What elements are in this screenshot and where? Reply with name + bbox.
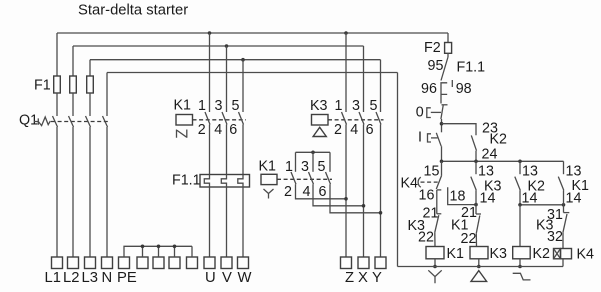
- node row junction col3: [518, 160, 522, 164]
- svg-text:24: 24: [482, 147, 498, 163]
- contactor K3 delta symbol: [313, 127, 326, 136]
- node L2-K1 tap: [225, 44, 229, 48]
- PE bus terminal 2: [153, 257, 164, 269]
- node PE bus 2: [157, 245, 161, 249]
- svg-text:Star-delta starter: Star-delta starter: [78, 2, 188, 18]
- star contactor K1 link dashed: [277, 178, 332, 180]
- wire PE bus drop 3: [174, 246, 176, 257]
- wire bridge to star pole3: [329, 152, 331, 172]
- svg-text:I: I: [418, 130, 422, 146]
- overload relay F1.1 heater element 3: [238, 175, 243, 188]
- contactor K3 link dashed: [328, 119, 384, 121]
- node branch K2 hold tap: [440, 122, 444, 126]
- node star-X junction: [362, 204, 366, 208]
- node coil K3 bus: [477, 265, 481, 269]
- wire star pole2 to X line: [313, 184, 364, 206]
- timer contact K4 common wire: [441, 161, 443, 176]
- contactor K1 link dashed: [193, 119, 247, 121]
- contactor K1 mains zigzag symbol: [177, 130, 187, 138]
- switch Q1 blade pole2: [69, 116, 74, 127]
- svg-text:K1: K1: [447, 246, 465, 262]
- wire L3 tap to K1 pole3: [242, 60, 244, 112]
- svg-text:F1.1: F1.1: [457, 60, 486, 76]
- wire Q1 pole1 to terminal L1: [56, 127, 58, 257]
- stop button 0 blade: [441, 105, 443, 119]
- svg-text:3: 3: [301, 159, 309, 175]
- fuse F1 pole 2: [70, 76, 77, 93]
- contact K1 13-14 blade: [558, 177, 564, 191]
- wire L1 tap to K1 pole1: [209, 33, 211, 112]
- contact K1 21-22 blade: [476, 216, 480, 234]
- mains zigzag below K2 coil: [513, 273, 531, 280]
- svg-text:K3: K3: [310, 98, 328, 114]
- contact K2 13-14 blade: [515, 177, 521, 191]
- wire L1 drop to F1: [56, 33, 58, 76]
- start button I rod: [431, 137, 438, 139]
- contactor K1 coil-box symbol: [176, 115, 193, 126]
- svg-text:14: 14: [566, 191, 582, 207]
- wire control feed from L1: [447, 33, 449, 43]
- overload trip 96 seat bracket: [441, 83, 447, 104]
- wire L3 end to K3 pole3: [380, 60, 382, 112]
- svg-text:K2: K2: [533, 246, 551, 262]
- overload relay F1.1 heater element 1: [204, 175, 209, 188]
- svg-text:0: 0: [416, 105, 424, 121]
- svg-text:F2: F2: [424, 40, 441, 56]
- fuse F1 pole 3: [87, 76, 94, 93]
- wire Q1 pole2 to terminal L2: [72, 127, 74, 257]
- svg-text:W: W: [238, 270, 252, 286]
- star symbol below K1 coil: [428, 270, 441, 283]
- svg-text:Z: Z: [345, 270, 354, 286]
- svg-text:U: U: [205, 270, 216, 286]
- svg-text:13: 13: [478, 164, 494, 180]
- svg-text:K3: K3: [490, 246, 508, 262]
- svg-text:4: 4: [214, 122, 222, 138]
- overload trip contact F1.1 blade: [441, 57, 448, 81]
- wire K3 pole1 to terminal Z: [345, 125, 347, 258]
- wire 16 to contact K3 21: [436, 190, 438, 214]
- wire K1 pole2 to F1.1: [226, 125, 228, 175]
- star contactor K1 blade pole1: [291, 172, 296, 184]
- svg-text:3: 3: [352, 98, 360, 114]
- node PE bus 1: [141, 245, 145, 249]
- wire coil K4 to bottom bus: [562, 259, 564, 267]
- svg-text:4: 4: [350, 122, 358, 138]
- overload trip 98 stub: [451, 80, 453, 87]
- node PE bus 3: [173, 245, 177, 249]
- wire 32 to coil K4: [562, 232, 564, 248]
- timer contact K4 16 seat: [437, 189, 442, 191]
- start button I blade: [436, 133, 441, 146]
- svg-text:N: N: [102, 270, 113, 286]
- switch Q1 blade pole3: [86, 116, 91, 127]
- wire K3 pole2 to terminal X: [363, 125, 365, 258]
- coil K3: [470, 247, 488, 259]
- switch Q1 blade pole4: [103, 116, 108, 127]
- PE bus terminal 1: [137, 257, 148, 269]
- svg-text:22: 22: [461, 231, 477, 247]
- svg-text:Q1: Q1: [19, 113, 38, 129]
- wire L1 tap to K3 pole1: [345, 33, 347, 112]
- wire Q1 pole4 to terminal N: [106, 127, 108, 257]
- coil K2: [513, 247, 531, 259]
- start button I cap: [428, 134, 432, 142]
- fuse F1 pole 1: [54, 76, 61, 93]
- wire L2 tap to K1 pole2: [226, 46, 228, 112]
- PE bus terminal 4: [187, 257, 198, 269]
- node coil K1 bus: [433, 265, 437, 269]
- svg-text:6: 6: [319, 184, 327, 200]
- wire K1 pole3 to F1.1: [242, 125, 244, 175]
- svg-text:5: 5: [318, 159, 326, 175]
- wire L2 bus: [73, 45, 364, 47]
- contact K3 31-32 blade: [563, 214, 567, 232]
- svg-text:98: 98: [456, 81, 472, 97]
- timer contact K4 18 branch: [448, 187, 476, 204]
- wire K1-14 down: [563, 190, 565, 204]
- terminal N: [102, 257, 113, 269]
- contact K1 21-22 seat: [476, 213, 481, 215]
- node K3-14 and 18 junction: [474, 203, 478, 207]
- node L3-K1 tap: [241, 58, 245, 62]
- timer contact K4 blade: [436, 176, 441, 189]
- wire N drop to Q1 pole4: [106, 73, 108, 117]
- wire K1 pole1 to F1.1: [209, 125, 211, 175]
- svg-text:K4: K4: [401, 176, 419, 192]
- contactor K1 blade pole3: [239, 112, 244, 125]
- wire PE bus drop 2: [158, 246, 160, 257]
- star contactor K1 coil-box symbol: [261, 174, 277, 184]
- svg-text:Y: Y: [372, 270, 382, 286]
- contactor K3 blade pole2: [359, 112, 364, 125]
- wire L1 bus: [57, 32, 448, 34]
- node row junction col2: [474, 160, 478, 164]
- wire star pole3 to Y line: [330, 184, 381, 213]
- contact K2 13-14 wire from node row: [519, 161, 521, 174]
- wire PE riser: [124, 246, 192, 257]
- wire 0 to I: [441, 119, 443, 132]
- wire I to node row: [441, 146, 443, 161]
- wire Q1 pole3 to terminal L3: [89, 127, 91, 257]
- wire bridge to star pole1: [295, 152, 297, 172]
- contactor K3 coil-box symbol: [312, 115, 329, 126]
- svg-text:14: 14: [522, 191, 538, 207]
- contact K1 21-22 wire: [475, 205, 477, 214]
- wire PE bus drop 4: [191, 246, 193, 257]
- node row junction main: [440, 160, 444, 164]
- coil K4 box: [561, 249, 572, 259]
- star contactor K1 star-point bridge: [296, 151, 331, 153]
- contact K3 21-22 blade: [435, 215, 439, 232]
- contact K3 31-32 wire: [563, 205, 565, 213]
- svg-text:22: 22: [418, 230, 434, 246]
- stop button 0 rod: [431, 111, 441, 113]
- star contactor K1 blade pole2: [309, 172, 314, 184]
- svg-text:4: 4: [303, 184, 311, 200]
- terminal L3: [85, 257, 96, 269]
- wire F1 to Q1 pole1: [56, 93, 58, 116]
- svg-text:PE: PE: [117, 270, 137, 286]
- overload relay F1.1 heater element 2: [221, 175, 226, 188]
- overload relay F1.1 box: [200, 175, 250, 188]
- node star-Y junction: [379, 211, 383, 215]
- wire PE bus drop 1: [142, 246, 144, 257]
- contact K1 13-14 wire from node row: [563, 161, 565, 174]
- switch Q1 actuator: [34, 117, 50, 126]
- svg-text:K4: K4: [577, 247, 595, 263]
- wire K3 pole3 to terminal Y: [380, 125, 382, 258]
- svg-text:18: 18: [450, 189, 466, 205]
- delta symbol below K3 coil: [471, 271, 487, 282]
- wire N bus: [107, 72, 398, 74]
- node link right: [562, 203, 566, 207]
- wire 22 to coil K1: [434, 232, 436, 246]
- svg-text:F1: F1: [34, 78, 51, 94]
- wire bridge to star pole2: [312, 152, 314, 172]
- svg-text:3: 3: [215, 98, 223, 114]
- svg-text:1: 1: [198, 98, 206, 114]
- svg-text:6: 6: [366, 122, 374, 138]
- svg-text:2: 2: [284, 184, 292, 200]
- node coil K2 bus: [518, 265, 522, 269]
- wire 22 to coil K3: [475, 233, 477, 246]
- terminal PE: [119, 257, 130, 269]
- svg-text:F1.1: F1.1: [172, 173, 201, 189]
- wire F1 to Q1 pole2: [72, 93, 74, 116]
- wire star pole1 to Z line: [296, 184, 347, 199]
- node star-Z junction: [344, 197, 348, 201]
- svg-text:2: 2: [334, 122, 342, 138]
- svg-text:K2: K2: [490, 132, 508, 148]
- contact K3 13-14 blade: [471, 177, 477, 191]
- wire node row: [442, 160, 564, 162]
- stop button 0 cap: [427, 108, 431, 118]
- contact K2 23-24 blade: [471, 135, 476, 150]
- wire L2 end to K3 pole2: [363, 46, 365, 112]
- wire 14-14 link: [520, 204, 564, 206]
- PE bus terminal 3: [169, 257, 180, 269]
- star contactor K1 star symbol: [264, 189, 274, 199]
- node L1-K1 tap: [208, 31, 212, 35]
- wire link to coil K2: [519, 205, 521, 247]
- wire F1.1 to terminal U: [209, 187, 211, 257]
- contactor K3 blade pole3: [376, 112, 381, 125]
- svg-text:X: X: [358, 270, 368, 286]
- star contactor K1 blade pole3: [326, 172, 331, 184]
- node L1-K3 tap: [344, 31, 348, 35]
- contact K3 13-14 wire from node row: [475, 161, 477, 174]
- contact K3 31-32 seat: [564, 212, 570, 214]
- terminal U: [204, 257, 215, 269]
- wire coil K1 to bottom bus: [434, 259, 436, 267]
- wire F1.1 to terminal V: [226, 187, 228, 257]
- svg-text:6: 6: [229, 122, 237, 138]
- svg-text:16: 16: [419, 188, 435, 204]
- terminal V: [221, 257, 232, 269]
- terminal X: [358, 257, 369, 269]
- svg-text:K1: K1: [259, 159, 277, 175]
- svg-text:5: 5: [370, 98, 378, 114]
- wire N line right drop: [397, 73, 399, 267]
- terminal L1: [52, 257, 63, 269]
- svg-text:L2: L2: [63, 270, 79, 286]
- coil K4 timer hatch lines: [554, 249, 561, 259]
- contactor K1 blade pole2: [222, 112, 227, 125]
- svg-text:32: 32: [547, 229, 563, 245]
- svg-text:2: 2: [198, 122, 206, 138]
- timer contact K4 link dashed: [421, 181, 438, 183]
- svg-text:5: 5: [232, 98, 240, 114]
- terminal W: [238, 257, 249, 269]
- svg-text:L1: L1: [45, 270, 61, 286]
- svg-text:1: 1: [335, 98, 343, 114]
- wire K2 hold to node row: [475, 151, 477, 162]
- contactor K1 blade pole1: [205, 112, 210, 125]
- svg-text:14: 14: [480, 191, 496, 207]
- timer contact K4 delay arc: [418, 177, 421, 187]
- wire F1 to Q1 pole3: [89, 93, 91, 116]
- switch Q1 blade pole1: [53, 116, 58, 127]
- wire F1.1 to terminal W: [242, 187, 244, 257]
- node link left: [518, 203, 522, 207]
- wire F2 to trip contact: [447, 53, 449, 57]
- contact K3 21-22 seat: [437, 213, 442, 215]
- wire coil K3 to bottom bus: [478, 259, 480, 267]
- fuse F2: [445, 43, 452, 54]
- wire L2 drop to F1: [72, 46, 74, 76]
- wire K2-14 down: [519, 190, 521, 204]
- svg-text:96: 96: [421, 81, 437, 97]
- node star bridge center: [311, 151, 315, 155]
- coil K4 timer hatched section: [554, 249, 561, 259]
- wire L3 drop to F1: [89, 60, 91, 76]
- svg-text:15: 15: [424, 164, 440, 180]
- terminal Y: [375, 257, 386, 269]
- wire L3 bus: [90, 59, 381, 61]
- wire branch to K2 hold contact: [442, 124, 477, 136]
- contactor K3 blade pole1: [342, 112, 347, 125]
- terminal Z: [341, 257, 352, 269]
- svg-text:K1: K1: [174, 98, 192, 114]
- svg-text:V: V: [222, 270, 232, 286]
- coil K1: [426, 247, 444, 259]
- terminal L2: [68, 257, 79, 269]
- svg-text:95: 95: [428, 58, 444, 74]
- switch Q1 link dashed: [51, 121, 108, 123]
- wire control bottom bus: [398, 266, 564, 268]
- wire coil K2 to bottom bus: [519, 259, 521, 267]
- wire K3-14 down: [475, 190, 477, 204]
- stop button 0 seat: [442, 104, 448, 106]
- svg-text:L3: L3: [82, 270, 98, 286]
- svg-text:13: 13: [522, 164, 538, 180]
